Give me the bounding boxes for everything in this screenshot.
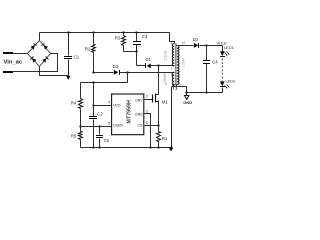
wire R5 bottom to rail: [80, 127, 82, 148]
transformer T1 core: [174, 43, 176, 85]
svg-text:1.3mH: 1.3mH: [181, 58, 185, 68]
node B junction VDD: [92, 81, 94, 83]
junction VDD riser on D3 wire: [126, 71, 128, 73]
transistor M1 channel bar: [155, 94, 157, 103]
wire C1 bottom: [68, 60, 70, 77]
junction C5 on pin5 wire: [98, 125, 100, 127]
svg-text:R3: R3: [115, 36, 121, 41]
resistor R4: [79, 99, 83, 109]
svg-text:CS: CS: [137, 124, 143, 128]
wire rail to primary top: [170, 33, 175, 44]
bridge diode top-right: [44, 45, 48, 50]
ground GND symbol: [186, 93, 188, 96]
svg-text:DSEN: DSEN: [113, 124, 123, 128]
resistor R2: [92, 45, 96, 53]
wire AC line1 to bridge left corner: [13, 53, 28, 55]
capacitor C1: [64, 56, 72, 57]
terminal Vin_ac line2: [3, 71, 13, 73]
wire secondary top to D2: [177, 45, 194, 47]
svg-text:D1: D1: [146, 57, 152, 62]
svg-text:GND: GND: [135, 113, 143, 117]
wire LED top: [222, 46, 224, 52]
svg-text:1: 1: [146, 121, 148, 125]
wire snubber down to D1: [136, 52, 138, 66]
op-amp U1 MT7959H body: [112, 94, 144, 135]
wire LED bottom to rail: [222, 88, 224, 93]
wire bridge top to rail: [39, 33, 41, 41]
wire R3 top: [122, 31, 124, 33]
junction divider to pin5: [79, 125, 81, 127]
junction drain node: [157, 64, 159, 66]
transformer T1 aux winding: [172, 72, 174, 84]
LED1 emission arrows: [225, 52, 230, 56]
svg-text:MT7959H: MT7959H: [126, 100, 132, 123]
transistor M1 source stub and arrow: [156, 101, 159, 103]
transistor M1 drain stub: [156, 94, 159, 96]
wire pin1 CS: [144, 125, 159, 127]
resistor R1: [158, 126, 160, 132]
transformer T1 primary winding: [172, 44, 174, 66]
capacitor C2: [89, 116, 97, 117]
svg-text:R4: R4: [71, 100, 77, 105]
svg-text:R1: R1: [162, 136, 168, 141]
ground arrow primary at rail end: [170, 146, 172, 148]
junction C4 top: [205, 44, 207, 46]
wire source to CS node: [158, 102, 160, 126]
wire pin2 GND to rail: [144, 114, 151, 148]
wire bridge negative to ground node: [40, 67, 69, 76]
svg-text:DRV: DRV: [135, 98, 143, 102]
svg-text:3: 3: [146, 95, 148, 99]
wire snubber join: [124, 45, 137, 52]
bridge diode bottom-right: [42, 58, 46, 63]
capacitor C5: [96, 135, 103, 136]
svg-text:C1: C1: [74, 55, 80, 60]
wire dashed LED string: [221, 58, 223, 80]
wire D3 anode: [94, 72, 114, 74]
bridge diode bottom-left: [32, 58, 36, 63]
svg-text:C2: C2: [97, 112, 103, 117]
transformer T1 secondary winding: [177, 45, 179, 84]
wire AC line2 to bridge right corner: [13, 54, 58, 72]
transistor M1 gate bar: [152, 95, 154, 103]
wire secondary bottom: [176, 85, 178, 87]
wire VDD down to pin4: [93, 83, 95, 117]
wire pin5 DSEN: [81, 126, 112, 128]
bridge rectifier BR1 diamond: [28, 41, 51, 67]
svg-text:5: 5: [108, 121, 110, 125]
resistor R5: [79, 132, 83, 140]
svg-text:D3: D3: [113, 64, 119, 69]
LEDn emission arrows: [225, 85, 230, 89]
wire R2 bottom to node A: [93, 53, 95, 73]
ground arrow aux bottom: [172, 84, 175, 87]
svg-text:2.2mH: 2.2mH: [164, 50, 168, 60]
wire C3 top: [135, 31, 137, 33]
wire pin4 VDD: [94, 105, 112, 107]
wire VDD riser: [127, 73, 129, 83]
wire R4 top: [80, 83, 82, 99]
diode D3: [114, 70, 118, 75]
wire R4 bottom: [80, 109, 82, 127]
svg-text:LEDn: LEDn: [226, 79, 236, 84]
wire pin3 DRV to gate: [144, 99, 153, 101]
wire primary ground rail: [81, 147, 172, 149]
terminal Vin_ac line1: [3, 52, 13, 54]
wire top DC bus rail: [40, 32, 170, 34]
wire drain vertical: [158, 66, 160, 95]
svg-text:C3: C3: [142, 34, 148, 39]
wire secondary ground rail: [187, 92, 223, 94]
diode D1: [145, 63, 146, 68]
svg-text:GND: GND: [183, 100, 192, 105]
wire C2 bottom to rail: [93, 120, 95, 148]
wire R1 bottom to rail: [158, 142, 160, 148]
capacitor C4: [206, 46, 208, 61]
ground arrow primary at C1: [66, 76, 70, 80]
svg-text:4: 4: [108, 100, 110, 104]
resistor R3: [122, 36, 126, 46]
svg-text:C5: C5: [104, 138, 110, 143]
svg-text:Vin_ac: Vin_ac: [4, 60, 23, 66]
wire R2 top: [92, 31, 94, 33]
junction pin4 VDD: [92, 104, 94, 106]
capacitor C3: [133, 41, 141, 42]
wire bottom link to GND: [172, 87, 187, 148]
LED LED1: [220, 51, 225, 56]
junction CS/R1/source: [157, 124, 159, 126]
svg-text:D2: D2: [193, 37, 199, 42]
wire C1 top: [67, 31, 69, 33]
wire C4 bottom: [206, 64, 208, 93]
svg-text:R2: R2: [85, 46, 91, 51]
wire D2 cathode to LED: [200, 45, 223, 47]
diode D2: [194, 43, 198, 48]
wire D1 cathode: [137, 65, 146, 67]
svg-text:150uH: 150uH: [163, 73, 167, 83]
svg-text:LED1: LED1: [224, 45, 234, 50]
svg-text:C4: C4: [212, 60, 218, 65]
wire D1 anode to drain node: [151, 65, 175, 67]
svg-text:R5: R5: [71, 134, 77, 139]
node A junction R2/D3: [92, 71, 94, 73]
wire R3 bottom: [123, 46, 125, 52]
LED LEDn: [220, 81, 225, 86]
wire VDD horizontal to R4: [81, 82, 128, 84]
svg-text:10: 10: [182, 40, 186, 44]
wire C5 top: [99, 127, 101, 135]
svg-text:M1: M1: [162, 100, 169, 105]
wire D3 cathode to aux winding top: [120, 72, 175, 74]
bridge diode top-left: [31, 45, 35, 50]
svg-text:VDD: VDD: [113, 104, 121, 108]
wire C5 bottom to rail: [99, 139, 101, 148]
